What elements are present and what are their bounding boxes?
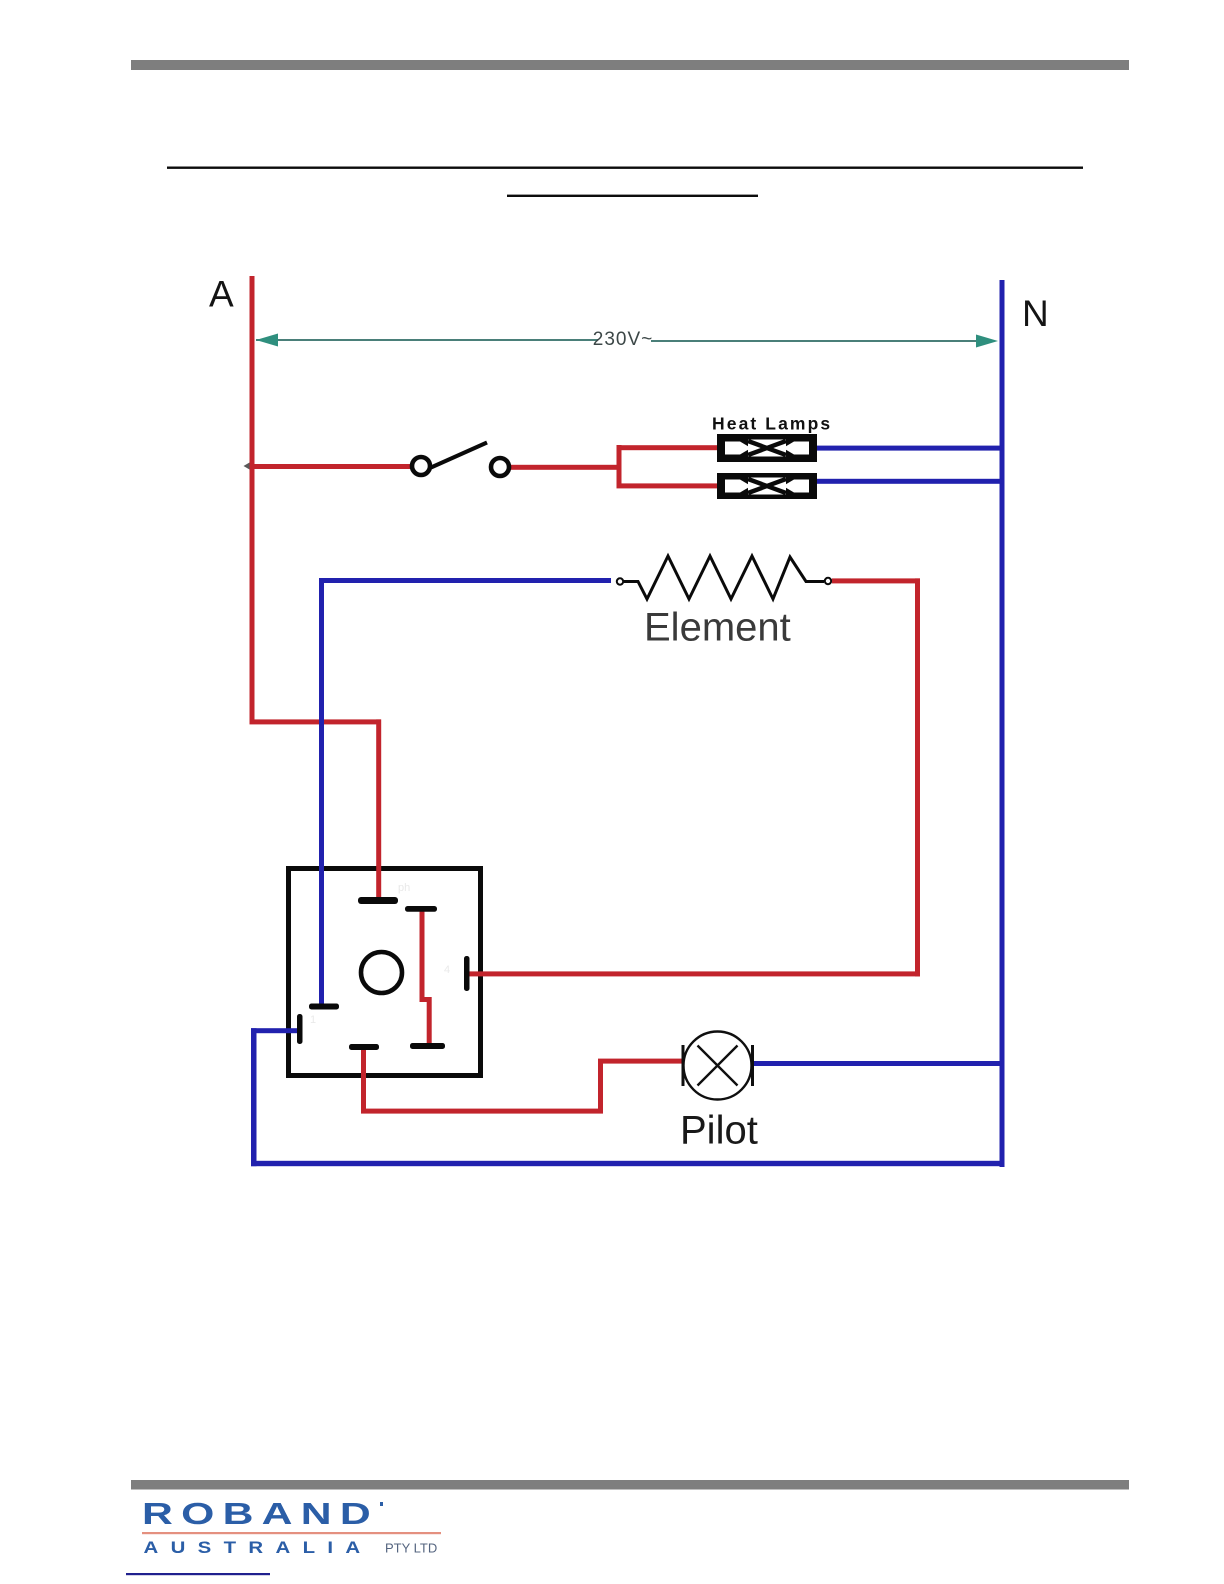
- thermostat pin 5 left-inner: [309, 1004, 339, 1010]
- wire: red pilot riser: [598, 1061, 603, 1113]
- heat lamp 2 body: [717, 473, 817, 499]
- switch SW1 lever: [431, 443, 487, 468]
- wire: blue element vertical down to thermostat: [319, 578, 324, 1007]
- pilot terminal right: [751, 1045, 754, 1086]
- svg-text:ROBAND: ROBAND: [142, 1496, 379, 1531]
- svg-text:ph: ph: [398, 882, 410, 894]
- wire: red A to switch: [252, 464, 412, 469]
- wire: blue thermostat left pin horizontal: [251, 1028, 297, 1033]
- thermostat pin 1 top-left: [358, 897, 398, 904]
- dimension line 230V~ right segment: [651, 340, 978, 342]
- thermostat pin 7 bottom-center: [349, 1044, 379, 1050]
- element resistor zigzag: [624, 556, 824, 599]
- svg-text:Element: Element: [644, 606, 791, 650]
- wire: red thermostat internal pin drop lower: [427, 997, 432, 1044]
- wire: blue neutral N vertical: [1000, 280, 1005, 1167]
- switch SW1 right contact: [491, 458, 509, 476]
- svg-text:AUSTRALIA: AUSTRALIA: [144, 1539, 373, 1557]
- logo trademark tick: [380, 1502, 383, 1506]
- wire: red switch to lamp branch: [510, 465, 620, 470]
- thermostat pin 6 left-edge: [297, 1014, 303, 1044]
- svg-text:Heat Lamps: Heat Lamps: [712, 414, 832, 434]
- wire: red pilot horizontal upper: [598, 1059, 682, 1064]
- wire: red thermostat internal jog: [420, 997, 432, 1002]
- wire: red branch to heat lamp 1: [617, 445, 718, 450]
- wire: red thermostat bottom pin drop: [361, 1047, 366, 1113]
- wire: blue pilot to N: [754, 1061, 1002, 1066]
- svg-text:1: 1: [310, 1014, 316, 1026]
- dimension arrowhead left: [256, 334, 278, 347]
- dimension line 230V~ left segment: [256, 339, 598, 341]
- wire: red lamp branch vertical: [617, 445, 622, 488]
- dimension arrowhead right: [976, 335, 998, 348]
- wire: red right drop vertical: [915, 578, 920, 976]
- title underline long: [167, 167, 1083, 169]
- pilot terminal left: [682, 1045, 685, 1086]
- svg-text:PTY LTD: PTY LTD: [385, 1541, 437, 1556]
- title underline short: [507, 195, 758, 197]
- wire: red thermostat pin4 to right drop: [469, 971, 920, 976]
- thermostat box: [289, 869, 481, 1076]
- wire: red branch to heat lamp 2: [617, 483, 718, 488]
- thermostat pin 2 top-right: [405, 906, 437, 912]
- svg-text:N: N: [1022, 293, 1049, 334]
- wire: blue heat lamp 2 to N: [817, 479, 1003, 484]
- pilot lamp circle: [684, 1032, 752, 1100]
- thermostat pin 4 right: [464, 956, 470, 991]
- wire: red element to right drop: [832, 578, 920, 583]
- element terminal right: [825, 578, 831, 584]
- thermostat pin 3 bottom-right: [410, 1043, 445, 1049]
- element terminal left: [617, 578, 623, 584]
- svg-text:A: A: [209, 274, 234, 315]
- wire: red pilot horizontal lower: [361, 1109, 603, 1114]
- wire: blue heat lamp 1 to N: [817, 446, 1003, 451]
- heat lamp 1 body: [717, 434, 817, 462]
- wire: blue bottom return horizontal: [251, 1161, 1004, 1166]
- wire: red A elbow horizontal: [250, 719, 382, 724]
- footer rule bar: [131, 1480, 1129, 1490]
- wire: blue element horizontal: [319, 578, 611, 583]
- svg-text:230V~: 230V~: [593, 329, 653, 350]
- svg-text:4: 4: [444, 964, 450, 976]
- footer link underline: [126, 1573, 270, 1575]
- svg-text:Pilot: Pilot: [680, 1109, 758, 1153]
- header rule bar: [131, 60, 1129, 70]
- logo salmon rule: [142, 1532, 441, 1534]
- thermostat knob circle: [361, 952, 402, 993]
- pilot lamp cross: [698, 1046, 738, 1086]
- switch SW1 left contact: [412, 457, 430, 475]
- junction tick at A tap: [244, 463, 250, 470]
- wire: blue bottom left vertical: [251, 1028, 257, 1166]
- wire: red thermostat internal pin2 drop upper: [420, 908, 425, 1000]
- wire: red elbow drop to thermostat pin: [376, 719, 381, 901]
- wire: red phase A vertical: [250, 276, 255, 724]
